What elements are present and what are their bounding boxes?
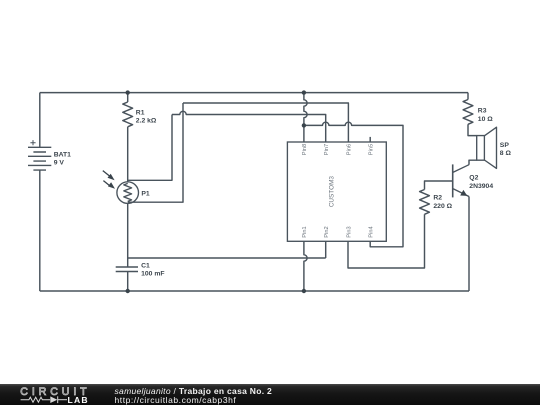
svg-text:R1: R1 <box>136 109 145 116</box>
battery BAT1 <box>28 147 51 170</box>
photoresistor P1 <box>117 182 139 204</box>
wire R3 top lead <box>467 93 469 100</box>
resistor R2 <box>420 190 430 215</box>
svg-text:LAB: LAB <box>68 395 89 405</box>
wire Pin8 node to Pin4 <box>304 122 403 247</box>
footer text <box>115 386 273 396</box>
svg-text:Pin2: Pin2 <box>324 226 330 237</box>
wire R1 top lead <box>127 93 129 102</box>
wire bottom rail <box>40 290 469 292</box>
svg-text:Pin7: Pin7 <box>324 144 330 155</box>
wire P1 bottom to C1 <box>127 203 129 267</box>
wire battery negative stem <box>39 170 41 291</box>
svg-text:C1: C1 <box>141 262 150 269</box>
capacitor C1 <box>116 267 138 272</box>
wire C1 node to Pin2 <box>128 241 326 258</box>
wire R2 top to Q2 base <box>425 181 453 190</box>
svg-text:SP: SP <box>500 142 510 149</box>
node junction Pin1/bottom rail <box>302 289 306 293</box>
node junction R1/top rail <box>126 90 130 94</box>
wire Q2 emitter to bottom rail <box>468 197 470 292</box>
wire top rail <box>40 92 468 94</box>
svg-text:Pin4: Pin4 <box>368 226 374 237</box>
svg-text:220 Ω: 220 Ω <box>433 203 452 210</box>
transistor Q2 emitter arrow <box>460 190 467 196</box>
footer bar <box>0 384 540 405</box>
wire P1 bottom to Pin6 <box>128 103 349 202</box>
svg-text:2.2 kΩ: 2.2 kΩ <box>136 118 157 125</box>
photoresistor P1 light arrows <box>103 171 115 189</box>
wire Pin5 stub <box>369 137 371 142</box>
svg-text:Pin8: Pin8 <box>302 144 308 155</box>
svg-text:R3: R3 <box>478 107 487 114</box>
wire Pin8 to top rail <box>304 93 307 142</box>
svg-text:2N3904: 2N3904 <box>469 183 493 190</box>
svg-text:Q2: Q2 <box>469 175 478 182</box>
svg-text:Pin5: Pin5 <box>369 144 375 155</box>
svg-text:Pin1: Pin1 <box>302 226 308 237</box>
resistor R1 <box>123 102 133 127</box>
wire Pin3 to R2 <box>348 214 425 268</box>
svg-text:8 Ω: 8 Ω <box>500 150 512 157</box>
IC pin labels <box>302 144 374 238</box>
resistor R3 <box>463 100 473 125</box>
svg-text:BAT1: BAT1 <box>54 151 71 158</box>
svg-text:Pin3: Pin3 <box>346 226 352 237</box>
wire left rail <box>39 93 41 148</box>
svg-text:Pin6: Pin6 <box>347 144 353 155</box>
wire Pin1 to bottom rail <box>304 241 307 291</box>
wire speaker bottom to Q2 collector <box>469 160 477 165</box>
CircuitLab logo <box>0 384 110 405</box>
wire C1 to bottom rail <box>127 272 129 292</box>
node junction C1/bottom rail <box>126 289 130 293</box>
wire R3 to speaker <box>468 124 477 135</box>
svg-text:CUSTOM3: CUSTOM3 <box>329 176 336 208</box>
node junction Pin8/Pin4 net <box>302 123 306 127</box>
node junction Pin8/top rail <box>302 90 306 94</box>
speaker SP <box>477 127 497 168</box>
svg-text:P1: P1 <box>141 191 150 198</box>
svg-text:10 Ω: 10 Ω <box>478 116 493 123</box>
IC U1 CUSTOM3 body <box>287 142 386 241</box>
svg-text:100 mF: 100 mF <box>141 271 164 278</box>
svg-text:R2: R2 <box>433 195 442 202</box>
svg-text:9 V: 9 V <box>54 160 65 167</box>
battery plus sign <box>30 140 35 145</box>
wire P1 top to Pin7 <box>128 111 326 180</box>
wire R1 to P1 <box>127 127 129 182</box>
transistor Q2 <box>453 164 469 197</box>
